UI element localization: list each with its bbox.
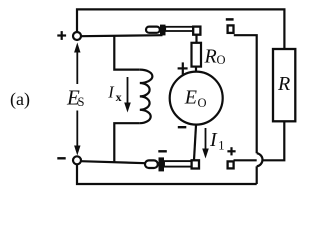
wire: top jack down to Ro: [195, 35, 197, 43]
wire: right vertical below hop: [256, 166, 258, 184]
wire: + terminal to top plug: [81, 35, 163, 36]
arrow Ix (down): [124, 77, 131, 113]
plug P1 barrel: [165, 27, 193, 31]
svg-text:E: E: [184, 86, 197, 108]
svg-text:O: O: [217, 53, 226, 67]
label - (above bottom plug): [158, 150, 167, 152]
svg-text:(a): (a): [10, 89, 30, 110]
label - (bottom-left): [57, 157, 65, 159]
wire hop (crossover) on right vertical: [257, 153, 263, 166]
svg-text:1: 1: [218, 138, 224, 152]
svg-text:O: O: [198, 96, 207, 110]
resistor Ro: [192, 43, 202, 67]
jack J4 (bottom right, plus): [228, 161, 234, 168]
source Eo (circle): [170, 72, 223, 125]
wire: right minus jack to right vertical, down to hop: [234, 35, 257, 153]
wire: inductor branch left: [114, 36, 140, 70]
label - (top right jack): [226, 18, 234, 21]
plug P1 (top): tip: [146, 27, 160, 33]
arrow down to - terminal: [74, 111, 80, 156]
plug P2 (bottom): tip: [145, 160, 158, 168]
wire: inductor bottom to bottom branch wire: [114, 123, 140, 162]
jack J3 (top right, minus): [228, 25, 234, 33]
wire: top rail from + terminal to R branch: [77, 9, 284, 49]
svg-text:R: R: [277, 73, 290, 95]
resistor R: [273, 49, 295, 121]
svg-text:x: x: [116, 90, 122, 104]
wire: Ro to Eo circle: [195, 67, 197, 72]
label - (below Eo): [178, 126, 187, 128]
wire: R bottom horizontal to + jack: [234, 121, 285, 160]
label + (above Eo): [178, 62, 188, 74]
plug P2 barrel: [164, 161, 192, 167]
arrow up to + terminal: [74, 43, 80, 85]
label + (bottom right jack): [227, 147, 235, 155]
label + (top-left): [57, 31, 66, 40]
inductor coil (4 loops): [140, 70, 153, 124]
plug P2 collar: [159, 157, 165, 171]
terminal - (bottom-left circle): [73, 156, 81, 164]
wire: bottom rail from - terminal to right vertical: [77, 164, 257, 184]
plug P1 collar: [160, 25, 166, 36]
wire: - terminal to bottom plug: [81, 161, 146, 163]
terminal + (top-left circle): [73, 32, 81, 40]
svg-text:I: I: [209, 129, 218, 151]
arrow I1 (down): [202, 128, 209, 159]
jack J1 (top, to Ro): [193, 27, 200, 35]
svg-text:R: R: [204, 46, 217, 68]
svg-text:S: S: [78, 95, 85, 109]
jack J2 (bottom, from Eo): [192, 160, 199, 168]
wire: Eo bottom to bottom jack: [194, 125, 196, 160]
